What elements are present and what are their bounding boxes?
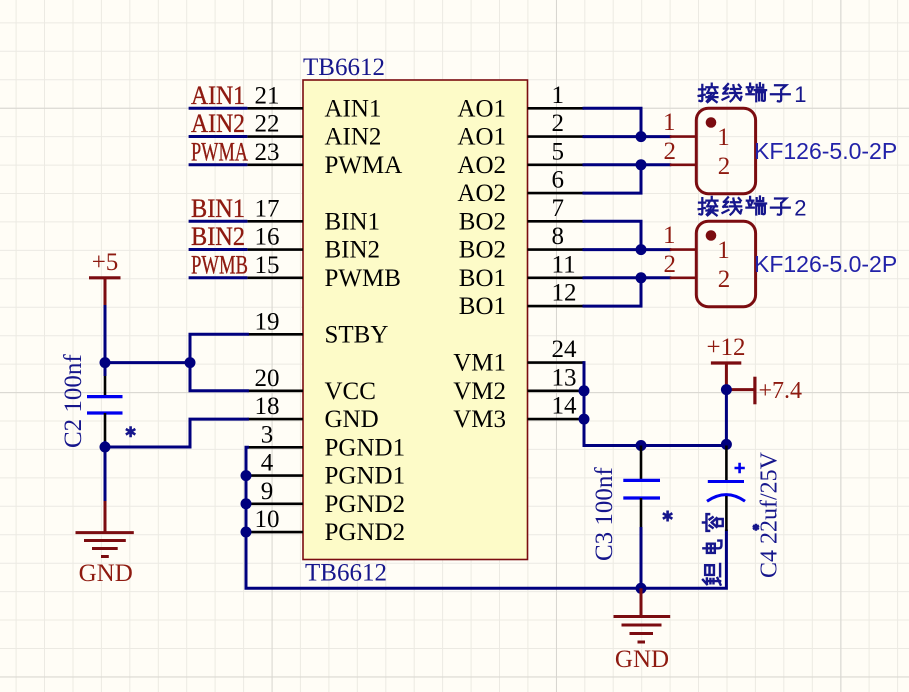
wire BO pair2 to connector xyxy=(584,276,670,279)
svg-text:AO2: AO2 xyxy=(457,180,506,207)
ground GND (right) xyxy=(614,588,671,673)
junction xyxy=(241,470,252,481)
capacitor C3 100nf xyxy=(623,446,660,528)
pin 23 (PWMA) left xyxy=(247,139,402,179)
svg-text:TB6612: TB6612 xyxy=(303,54,385,81)
svg-text:20: 20 xyxy=(255,365,280,392)
junction C4/+12 corner xyxy=(721,439,732,450)
pin 21 (AIN1) left xyxy=(247,82,381,122)
svg-text:+7.4: +7.4 xyxy=(759,378,803,404)
wire BO1 top to junction xyxy=(584,221,641,249)
svg-text:15: 15 xyxy=(255,252,280,279)
C3 asterisk xyxy=(663,511,673,522)
connector J2 pin 2 xyxy=(664,251,731,293)
wire VM rail to +12 xyxy=(584,363,726,446)
pin 10 (PGND2) left xyxy=(247,506,405,546)
connector J2 pin-1 marker dot xyxy=(706,230,717,241)
svg-text:PGND2: PGND2 xyxy=(325,519,406,546)
wire AO pair2 to connector xyxy=(584,163,670,166)
wire +5 rail xyxy=(105,361,190,364)
svg-text:PGND1: PGND1 xyxy=(325,434,406,461)
svg-text:22: 22 xyxy=(255,111,280,138)
svg-text:5: 5 xyxy=(552,138,565,165)
connector J1 pin 1 xyxy=(663,109,730,151)
pin 20 (VCC) left xyxy=(247,365,376,405)
C4 tantalum-capacitor Chinese label (rotated) xyxy=(703,514,723,584)
C4 asterisk xyxy=(753,524,759,531)
svg-text:11: 11 xyxy=(552,251,576,278)
svg-text:BO2: BO2 xyxy=(459,237,506,264)
svg-text:3: 3 xyxy=(261,421,274,448)
svg-text:PGND2: PGND2 xyxy=(325,491,406,518)
connector J2 designator label (Chinese terminal-block text) xyxy=(699,195,807,220)
wire AO1 top to junction xyxy=(584,108,641,136)
wire rail to C2 xyxy=(104,363,107,376)
pin 4 (PGND1) left xyxy=(247,450,405,490)
C4 plus sign xyxy=(735,463,745,473)
junction C3 top xyxy=(636,440,647,451)
pin 11 (BO1) right xyxy=(459,251,584,292)
svg-text:C4 22uf/25V: C4 22uf/25V xyxy=(757,451,783,578)
svg-text:AO2: AO2 xyxy=(457,152,506,179)
svg-text:1: 1 xyxy=(663,109,676,136)
svg-text:AIN1: AIN1 xyxy=(191,81,245,110)
wire net PWMB xyxy=(189,276,248,279)
svg-text:AIN2: AIN2 xyxy=(191,109,245,138)
svg-text:9: 9 xyxy=(261,478,274,505)
svg-text:16: 16 xyxy=(255,224,280,251)
svg-text:19: 19 xyxy=(255,308,280,335)
wire net AIN2 xyxy=(189,135,248,138)
svg-text:1: 1 xyxy=(663,222,676,249)
svg-text:PWMB: PWMB xyxy=(191,250,248,279)
pin 15 (PWMB) left xyxy=(247,252,401,292)
IC U1 TB6612 body xyxy=(303,80,528,560)
svg-text:GND: GND xyxy=(325,406,379,433)
svg-text:1: 1 xyxy=(552,82,565,109)
svg-text:1: 1 xyxy=(717,124,730,151)
svg-text:12: 12 xyxy=(552,280,577,307)
wire STBY to +5 rail xyxy=(190,334,247,362)
svg-text:14: 14 xyxy=(552,393,578,420)
wire net BIN2 xyxy=(189,248,248,251)
svg-text:AO1: AO1 xyxy=(457,124,506,151)
svg-text:7: 7 xyxy=(552,195,565,222)
junction at +7.4 tap xyxy=(721,384,732,395)
junction bottom rail / GND xyxy=(636,583,647,594)
svg-text:VM2: VM2 xyxy=(453,378,506,405)
junction xyxy=(100,442,111,453)
wire BO pair1 to connector xyxy=(584,248,670,251)
pin 22 (AIN2) left xyxy=(247,111,381,151)
pin 5 (AO2) right xyxy=(457,138,584,179)
svg-text:24: 24 xyxy=(552,336,578,363)
svg-text:BIN1: BIN1 xyxy=(325,208,381,235)
svg-text:KF126-5.0-2P: KF126-5.0-2P xyxy=(754,251,897,277)
junction xyxy=(636,131,647,142)
svg-text:17: 17 xyxy=(255,195,280,222)
svg-text:BIN1: BIN1 xyxy=(191,194,245,223)
svg-text:STBY: STBY xyxy=(325,321,389,348)
wire net AIN1 xyxy=(189,107,248,110)
wire net PWMA xyxy=(189,163,248,166)
pin 16 (BIN2) left xyxy=(247,224,380,264)
svg-text:PWMB: PWMB xyxy=(325,265,401,292)
svg-text:+12: +12 xyxy=(706,334,745,361)
svg-text:13: 13 xyxy=(552,364,577,391)
wire GND pin to C2 bottom xyxy=(105,419,247,447)
junction xyxy=(636,159,647,170)
svg-text:GND: GND xyxy=(79,560,133,587)
wire AO pair1 to connector xyxy=(584,135,670,138)
junction xyxy=(185,357,196,368)
svg-text:2: 2 xyxy=(718,266,731,293)
svg-text:6: 6 xyxy=(552,167,565,194)
power port +7.4 xyxy=(726,377,802,405)
wire VCC to rail xyxy=(190,363,247,391)
wire +5 to C2 xyxy=(104,305,107,363)
connector J1 body (KF126-5.0-2P) xyxy=(696,108,755,194)
pin 2 (AO1) right xyxy=(457,110,584,151)
svg-text:2: 2 xyxy=(552,110,565,137)
pin 7 (BO2) right xyxy=(459,195,584,236)
junction xyxy=(241,498,252,509)
junction xyxy=(579,385,590,396)
svg-text:8: 8 xyxy=(552,223,565,250)
svg-text:VCC: VCC xyxy=(325,378,376,405)
connector J1 designator label (Chinese terminal-block text) xyxy=(699,82,807,107)
svg-text:BO1: BO1 xyxy=(459,265,506,292)
svg-text:2: 2 xyxy=(794,195,806,220)
capacitor C2 100nf xyxy=(87,376,123,441)
svg-text:1: 1 xyxy=(717,237,730,264)
svg-text:+5: +5 xyxy=(92,249,119,276)
svg-text:PWMA: PWMA xyxy=(191,137,248,166)
svg-text:TB6612: TB6612 xyxy=(305,560,387,587)
pin 8 (BO2) right xyxy=(459,223,584,263)
junction xyxy=(579,414,590,425)
C2 asterisk xyxy=(126,426,136,437)
junction xyxy=(241,527,252,538)
pin 1 (AO1) right xyxy=(457,82,584,123)
wire C3 to bottom rail xyxy=(640,527,643,588)
connector J1 pin 2 xyxy=(664,138,731,180)
pin 3 (PGND1) left xyxy=(247,421,405,461)
svg-text:C2 100nf: C2 100nf xyxy=(60,354,87,448)
pin 19 (STBY) left xyxy=(247,308,388,348)
pin 13 (VM2) right xyxy=(453,364,584,405)
svg-text:2: 2 xyxy=(664,251,677,278)
svg-text:21: 21 xyxy=(255,82,280,109)
connector J2 pin 1 xyxy=(663,222,730,264)
power port +5 xyxy=(89,249,121,305)
ground GND (left) xyxy=(76,501,134,587)
svg-text:BO1: BO1 xyxy=(459,293,506,320)
junction xyxy=(100,357,111,368)
svg-text:AIN2: AIN2 xyxy=(325,124,382,151)
connector J1 pin-1 marker dot xyxy=(706,117,717,128)
svg-text:1: 1 xyxy=(794,82,806,107)
pin 9 (PGND2) left xyxy=(247,478,405,518)
svg-text:BIN2: BIN2 xyxy=(325,237,381,264)
wire BO bottom to junction xyxy=(584,278,641,306)
svg-text:2: 2 xyxy=(664,138,677,165)
pin 17 (BIN1) left xyxy=(247,195,380,235)
pin 6 (AO2) right xyxy=(457,167,584,208)
pin 12 (BO1) right xyxy=(459,280,584,321)
junction xyxy=(636,272,647,283)
svg-text:18: 18 xyxy=(255,393,280,420)
wire AO bottom to junction xyxy=(584,165,641,193)
connector J2 body (KF126-5.0-2P) xyxy=(696,221,755,307)
svg-text:BO2: BO2 xyxy=(459,208,506,235)
svg-text:AIN1: AIN1 xyxy=(325,95,382,122)
svg-text:AO1: AO1 xyxy=(457,95,506,122)
svg-text:VM1: VM1 xyxy=(453,350,506,377)
capacitor C4 22uf/25V (polarized) xyxy=(707,446,745,532)
pin 18 (GND) left xyxy=(247,393,378,433)
svg-text:C3 100nf: C3 100nf xyxy=(591,467,618,561)
svg-text:GND: GND xyxy=(615,646,669,673)
pin 14 (VM3) right xyxy=(453,393,584,434)
svg-text:2: 2 xyxy=(718,153,731,180)
svg-text:KF126-5.0-2P: KF126-5.0-2P xyxy=(754,138,897,164)
svg-text:23: 23 xyxy=(255,139,280,166)
svg-text:PWMA: PWMA xyxy=(325,152,403,179)
svg-text:VM3: VM3 xyxy=(453,406,506,433)
svg-text:BIN2: BIN2 xyxy=(191,222,245,251)
wire PGND chain xyxy=(246,447,726,588)
power port +12 xyxy=(706,334,745,390)
svg-text:4: 4 xyxy=(261,450,274,477)
svg-text:10: 10 xyxy=(255,506,280,533)
junction xyxy=(636,244,647,255)
wire C2 to GND xyxy=(104,441,107,501)
pin 24 (VM1) right xyxy=(453,336,584,377)
wire net BIN1 xyxy=(189,220,248,223)
svg-text:PGND1: PGND1 xyxy=(325,463,406,490)
